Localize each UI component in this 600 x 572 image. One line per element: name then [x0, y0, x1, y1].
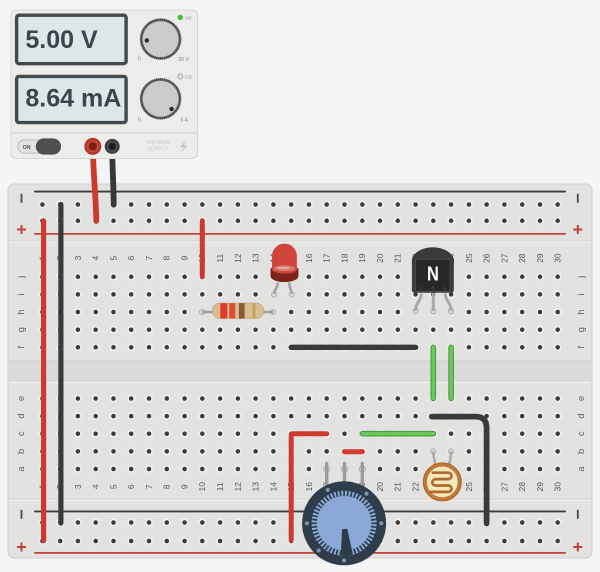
svg-text:21: 21 [393, 482, 403, 492]
transistor Q1 NPN (legs col22,23,24 row h) [412, 247, 454, 314]
svg-text:SUPPLY: SUPPLY [147, 147, 168, 153]
svg-text:18: 18 [339, 253, 349, 263]
potentiometer RV1 (pins col17,18,19 row a) [302, 462, 386, 566]
svg-text:ON: ON [23, 145, 31, 151]
wire red from supply + terminal to top + rail [93, 149, 96, 222]
svg-text:i: i [16, 293, 27, 295]
breadboard holes grid (decorative) [38, 200, 562, 545]
current display 8.64 mA [17, 76, 127, 122]
wire red L-shape (row c col 17 to bottom + rail col 15) [291, 434, 327, 541]
column numbers [37, 253, 562, 491]
negative rail line bottom [34, 511, 566, 513]
positive terminal [84, 138, 101, 155]
svg-text:a: a [576, 466, 587, 472]
positive rail line top [34, 233, 566, 235]
CC indicator [178, 74, 193, 81]
svg-text:e: e [576, 396, 587, 401]
svg-text:e: e [16, 396, 27, 401]
svg-text:21: 21 [393, 253, 403, 263]
svg-text:f: f [576, 346, 587, 349]
svg-text:h: h [576, 309, 587, 314]
svg-text:b: b [16, 449, 27, 454]
svg-text:VOLTAGE: VOLTAGE [145, 140, 170, 146]
svg-text:5: 5 [108, 484, 118, 489]
svg-text:9: 9 [180, 484, 190, 489]
resistor R1 220ohm (col10 row h to col14 row h) [200, 303, 277, 318]
svg-text:30: 30 [553, 482, 563, 492]
svg-text:5.00 V: 5.00 V [25, 26, 98, 54]
current knob [140, 78, 182, 120]
svg-text:3: 3 [73, 256, 83, 261]
svg-text:28: 28 [517, 253, 527, 263]
svg-text:30 V: 30 V [178, 57, 189, 63]
VOLTAGE SUPPLY label [145, 140, 170, 152]
svg-text:13: 13 [251, 482, 261, 492]
svg-text:7: 7 [144, 484, 154, 489]
svg-text:27: 27 [499, 253, 509, 263]
svg-text:VC: VC [185, 16, 192, 22]
svg-text:5 A: 5 A [180, 117, 188, 123]
wire black row f (col 15 to col 22) [291, 345, 415, 350]
svg-text:30: 30 [553, 253, 563, 263]
breadboard [8, 184, 592, 558]
svg-text:C: C [420, 286, 424, 292]
svg-text:20: 20 [375, 253, 385, 263]
svg-text:3: 3 [73, 484, 83, 489]
photoresistor LDR1 (legs col23,col24 row b) [423, 449, 461, 501]
row letters [16, 276, 587, 472]
wire black L-shape (row d col 23 to bottom - rail col 26) [432, 417, 487, 524]
svg-text:0: 0 [138, 57, 141, 63]
svg-text:j: j [576, 276, 587, 279]
svg-text:14: 14 [268, 482, 278, 492]
VC indicator [178, 15, 193, 22]
LED D1 red (legs col14,col15 row i) [271, 244, 299, 298]
svg-text:N: N [427, 262, 439, 285]
rail polarity symbols [17, 194, 582, 552]
svg-text:26: 26 [482, 253, 492, 263]
svg-text:h: h [16, 309, 27, 314]
svg-text:8: 8 [162, 484, 172, 489]
svg-text:i: i [576, 293, 587, 295]
svg-text:j: j [16, 276, 27, 279]
svg-text:b: b [576, 449, 587, 454]
wire black from supply - terminal to top - rail [112, 149, 114, 205]
svg-text:29: 29 [535, 482, 545, 492]
svg-text:6: 6 [126, 256, 136, 261]
wire black left rail jumper (top - rail to bottom - rail) [58, 205, 63, 524]
svg-text:11: 11 [215, 482, 225, 491]
svg-text:25: 25 [464, 253, 474, 263]
svg-text:g: g [576, 327, 587, 332]
wire red column 10 (+ rail to row j) [200, 221, 205, 277]
svg-text:10: 10 [197, 482, 207, 492]
svg-text:a: a [16, 466, 27, 472]
svg-text:5: 5 [108, 256, 118, 261]
svg-text:20: 20 [375, 482, 385, 492]
svg-text:f: f [16, 346, 27, 349]
svg-text:19: 19 [357, 253, 367, 263]
svg-text:c: c [16, 431, 27, 436]
svg-text:13: 13 [251, 253, 261, 263]
svg-text:25: 25 [464, 482, 474, 492]
svg-text:8.64 mA: 8.64 mA [25, 85, 121, 113]
svg-text:12: 12 [233, 482, 243, 492]
svg-text:6: 6 [126, 484, 136, 489]
svg-text:8: 8 [162, 256, 172, 261]
wire red jumper row b (col 18 to col 19) [345, 449, 363, 454]
lightning bolt icon [180, 140, 188, 153]
svg-text:d: d [576, 413, 587, 418]
svg-text:16: 16 [304, 253, 314, 263]
positive rail line bottom [34, 552, 566, 554]
wire green col 23 (row f to row e) [430, 347, 436, 398]
svg-text:22: 22 [411, 482, 421, 492]
svg-text:4: 4 [91, 484, 101, 489]
svg-text:4: 4 [91, 256, 101, 261]
svg-text:11: 11 [215, 254, 225, 263]
voltage display 5.00 V [17, 15, 127, 64]
ON switch [18, 138, 61, 154]
svg-text:27: 27 [499, 482, 509, 492]
svg-text:12: 12 [233, 253, 243, 263]
svg-text:17: 17 [322, 253, 332, 263]
svg-text:28: 28 [517, 482, 527, 492]
svg-text:g: g [16, 327, 27, 332]
negative rail line top [34, 191, 566, 193]
wire green col 24 (row f to row e) [448, 347, 454, 398]
svg-text:7: 7 [144, 256, 154, 261]
svg-text:d: d [16, 413, 27, 418]
svg-text:9: 9 [180, 256, 190, 261]
svg-text:0: 0 [138, 117, 141, 123]
svg-text:16: 16 [304, 482, 314, 492]
svg-text:29: 29 [535, 253, 545, 263]
svg-text:CC: CC [185, 75, 192, 81]
wire green row c (col 19 to col 23) [362, 431, 433, 437]
wire red left rail jumper (top + rail to bottom + rail) [41, 221, 46, 541]
negative terminal [105, 139, 120, 154]
voltage knob [140, 18, 182, 60]
voltage supply PS1 [11, 10, 198, 159]
svg-text:c: c [576, 431, 587, 436]
